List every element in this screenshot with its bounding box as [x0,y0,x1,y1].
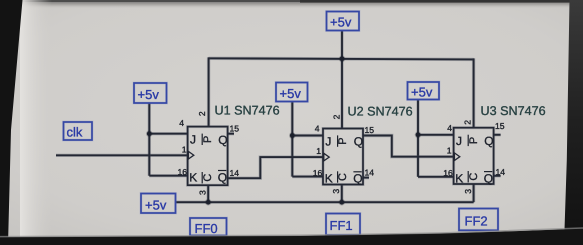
monitor bezel left [0,0,23,245]
power source +5v bottom (CLR rail supply) [141,194,176,214]
junction: U3 J feed [415,132,422,139]
svg-text:15: 15 [230,124,240,134]
svg-text:+5v: +5v [145,197,167,212]
svg-text:Q: Q [484,134,493,148]
wire: +5v feed vertical for U1 J/K [148,103,151,176]
wire: U2 Q pin 15 to U3 CLK pin 1 [363,136,454,157]
svg-text:1: 1 [182,145,187,155]
svg-text:16: 16 [443,168,453,178]
svg-text:16: 16 [313,168,323,178]
wire: bottom +5v rail horizontal (CLR rail) [176,200,474,203]
svg-text:4: 4 [447,123,452,133]
power source +5v for U2 J/K [276,83,308,102]
svg-text:J: J [190,133,196,147]
wire: U3 K pin 16 horizontal [418,175,454,178]
svg-text:+5v: +5v [138,87,160,102]
wire: +5v feed vertical for U2 J/K [291,102,294,177]
junction: U1 CLR to bottom rail [205,199,212,206]
svg-text:4: 4 [179,118,184,128]
wire: U1 PR pin 2 vertical [207,57,210,126]
wire: U1 J pin 4 horizontal [149,132,187,135]
wire: U1 K pin 16 horizontal [149,174,187,177]
junction: U2 CLR to bottom rail [339,199,346,206]
svg-text:P: P [202,136,214,143]
wire: top +5v rail horizontal (PR rail) [209,58,474,59]
svg-text:C: C [337,173,349,181]
svg-text:K: K [189,170,197,184]
junction: U1 J feed [146,130,153,137]
svg-text:Q: Q [484,171,493,185]
wire: U2 J pin 4 horizontal [292,134,323,137]
svg-text:clk: clk [67,125,83,140]
svg-text:Q: Q [218,133,227,147]
wire: U3 PR pin 2 vertical [472,58,475,127]
svg-text:Q: Q [218,170,227,184]
wire: clk net horizontal into U1 CLK pin 1 [56,154,188,157]
svg-text:FF2: FF2 [465,213,488,228]
junction: U2 J feed [289,132,296,139]
svg-text:4: 4 [315,124,320,134]
svg-text:1: 1 [447,146,452,156]
flip-flop U3 SN7476 body [454,128,494,186]
wire: U3 Q pin 15 stub [494,133,501,136]
svg-text:K: K [455,171,463,185]
svg-text:14: 14 [230,168,240,178]
svg-text:3: 3 [463,189,473,194]
svg-text:Q: Q [353,172,362,186]
svg-text:1: 1 [316,146,321,156]
wire: +5v feed vertical for U3 J/K [416,100,419,177]
top edge dark line [20,0,583,2]
node label FF2 [459,209,498,231]
svg-text:16: 16 [177,167,187,177]
svg-text:C: C [468,173,480,181]
junction: top rail to U2 PR [339,56,346,63]
svg-text:Q: Q [354,135,363,149]
wire: U2 Q-bar pin 14 stub [363,176,369,179]
wire: U3 CLR pin 3 vertical [472,184,475,202]
wire: U3 J pin 4 horizontal [418,133,454,136]
svg-text:+5v: +5v [280,86,302,101]
svg-text:+5v: +5v [411,84,433,99]
svg-text:3: 3 [198,190,208,195]
bright band near left bezel [20,0,52,245]
svg-text:14: 14 [365,168,375,178]
svg-text:U2 SN7476: U2 SN7476 [348,105,413,119]
svg-text:FF0: FF0 [195,221,218,236]
svg-text:P: P [337,137,349,144]
svg-text:3: 3 [331,189,341,194]
wire: U1 Q pin 15 stub [228,132,234,135]
svg-text:P: P [468,137,480,144]
wire: U1 Q-bar pin 14 to U2 CLK pin 1 [228,157,323,178]
wire: U3 Q-bar pin 14 stub [494,174,501,177]
wire: U1 CLR pin 3 vertical [206,185,209,202]
svg-text:FF1: FF1 [330,218,353,233]
node label FF0 [190,218,227,236]
node label clk [64,122,93,140]
wire: U2 PR pin 2 vertical from top +5v source [340,31,343,129]
svg-text:+5v: +5v [330,15,352,30]
top edge band [0,0,583,9]
power source +5v for U1 J/K [134,83,167,103]
svg-text:2: 2 [331,114,341,119]
svg-text:15: 15 [365,125,375,135]
svg-text:C: C [202,174,214,182]
wire: U2 CLR pin 3 vertical [340,185,343,203]
svg-text:U1 SN7476: U1 SN7476 [215,104,280,118]
power source +5v top (U2 PR supply) [327,12,360,31]
svg-text:U3 SN7476: U3 SN7476 [481,104,546,118]
monitor bezel right [564,0,583,245]
svg-text:K: K [325,172,333,186]
node label FF1 [326,214,360,236]
power source +5v for U3 J/K [408,82,440,100]
svg-text:J: J [456,134,462,148]
svg-text:2: 2 [197,111,207,116]
svg-text:14: 14 [496,167,506,177]
svg-text:J: J [325,135,331,149]
wire: U2 K pin 16 horizontal [292,175,323,178]
svg-text:2: 2 [462,120,472,125]
flip-flop U1 SN7476 body [188,127,228,186]
bezel bottom top-edge highlight [0,228,583,237]
flip-flop U2 SN7476 body [323,129,363,186]
svg-text:15: 15 [495,121,505,131]
monitor bezel bottom [0,229,583,245]
